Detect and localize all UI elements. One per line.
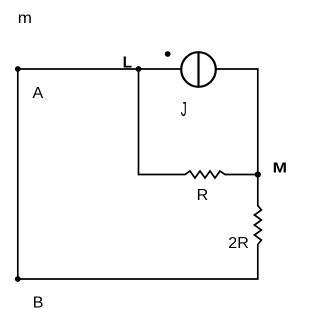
svg-text:A: A — [33, 85, 44, 102]
svg-text:2R: 2R — [228, 235, 248, 252]
svg-text:J: J — [181, 99, 187, 121]
svg-text:m: m — [18, 10, 32, 27]
svg-text:B: B — [33, 295, 44, 312]
svg-text:M: M — [273, 160, 287, 177]
svg-text:L: L — [123, 54, 132, 71]
svg-text:R: R — [197, 187, 209, 204]
